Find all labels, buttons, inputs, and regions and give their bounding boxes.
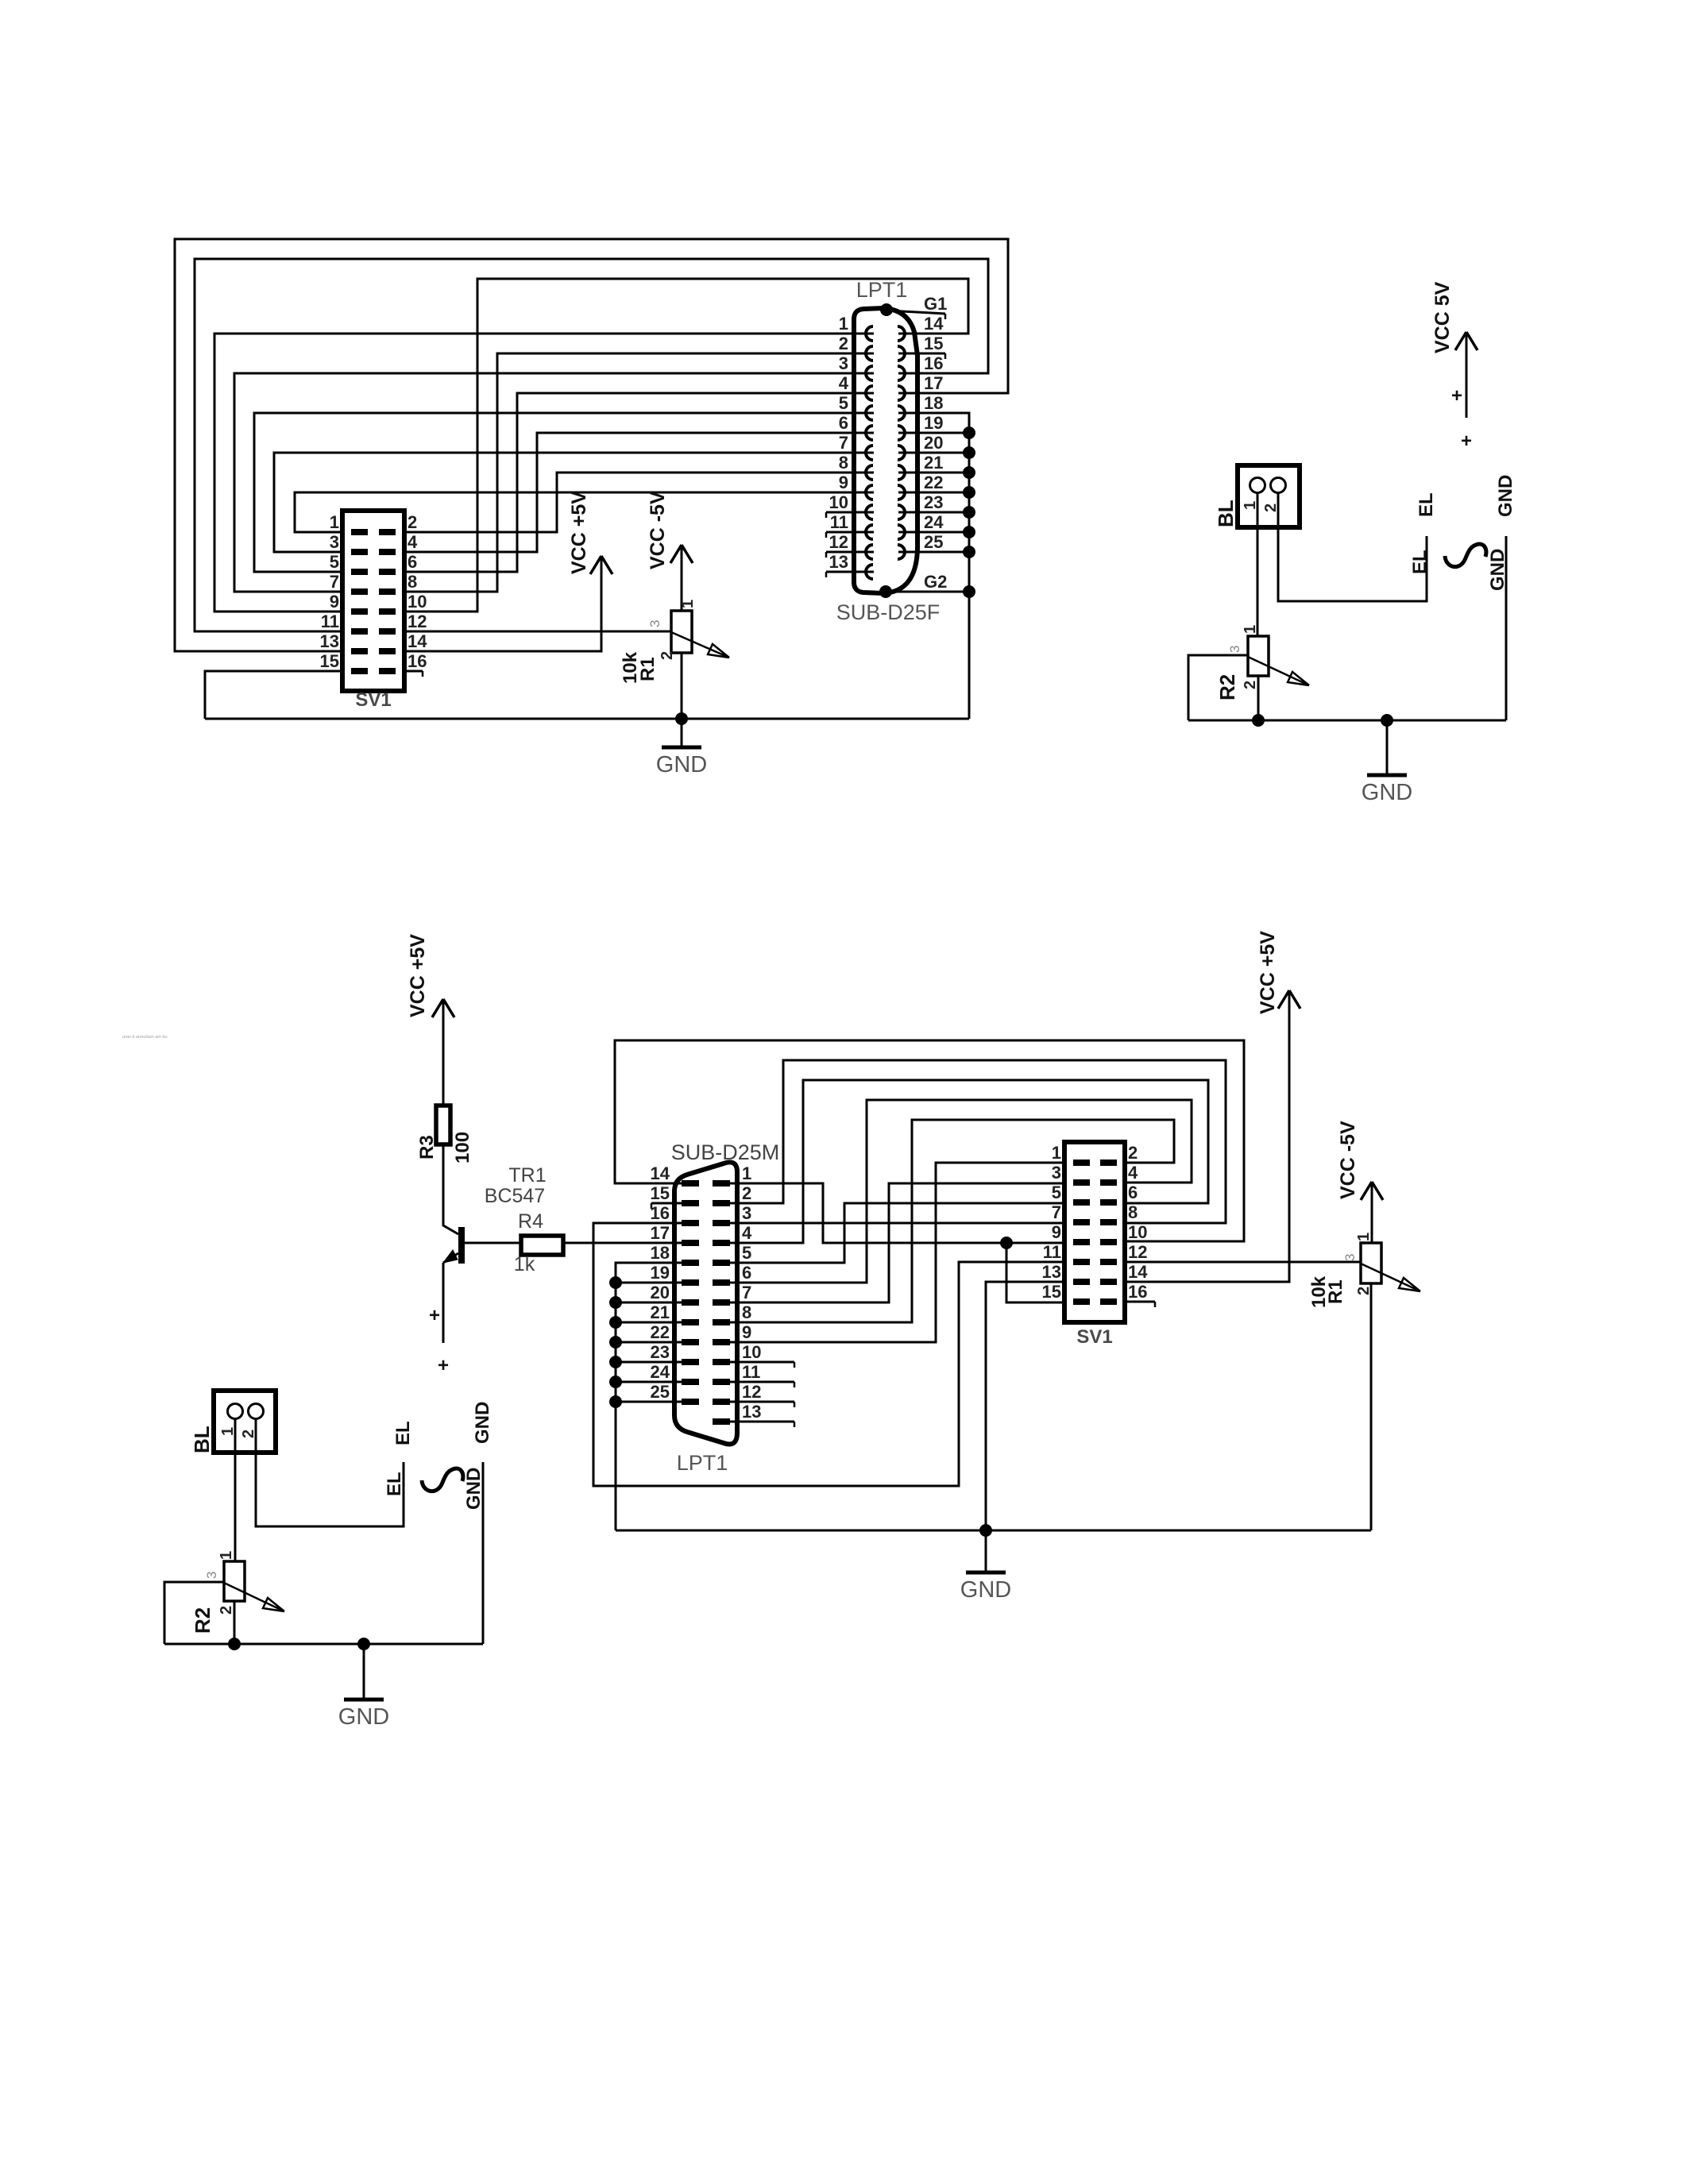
power VCC +5V arrow (bottom right) [1278, 990, 1300, 1009]
header SV1 (bottom) pin pads [1073, 1160, 1090, 1166]
junction LPT1-25 (bottom) [609, 1395, 622, 1408]
wire BL-1 to R2-1 (top right) [1257, 492, 1259, 636]
svg-text:16: 16 [924, 353, 943, 373]
pin 13 stub (LPT1 top) [826, 571, 874, 573]
svg-text:EL: EL [392, 1421, 414, 1445]
wire LPT1-22 to GND bus [898, 492, 969, 494]
wire LPT1-4 to SV1-6 (run3) [727, 1080, 1208, 1243]
svg-text:12: 12 [742, 1382, 761, 1402]
connector LPT1 pin arcs [866, 326, 873, 341]
connector BL (top right) body [1238, 465, 1300, 527]
svg-text:3: 3 [330, 532, 339, 552]
svg-text:VCC -5V: VCC -5V [647, 491, 669, 569]
wire LPT1-21 to GND bus [898, 472, 969, 474]
svg-text:15: 15 [651, 1183, 670, 1203]
svg-text:SUB-D25F: SUB-D25F [836, 600, 941, 624]
svg-text:EL: EL [1409, 550, 1431, 574]
junction LPT1-21 (bottom) [609, 1316, 622, 1329]
svg-text:11: 11 [830, 512, 848, 532]
svg-text:3: 3 [839, 353, 848, 373]
junction R2-2 node (bottom left) [228, 1638, 241, 1650]
wire SV1-14 to VCC+5V [404, 556, 601, 651]
svg-text:+: + [1461, 430, 1472, 452]
wire BL-2 to EL (top right) [1278, 492, 1427, 601]
wire GND bottom run (bottom schematic) [616, 1530, 1371, 1532]
wire LPT1-19 to GND bus [898, 432, 969, 434]
svg-text:VCC 5V: VCC 5V [1431, 281, 1454, 353]
wire TR1 emitter down [442, 1263, 445, 1343]
svg-text:11: 11 [742, 1362, 760, 1382]
junction LPT1-24 [963, 526, 975, 538]
svg-text:17: 17 [651, 1223, 670, 1243]
svg-text:2: 2 [408, 512, 417, 532]
svg-text:2: 2 [1128, 1143, 1138, 1163]
svg-text:1k: 1k [514, 1253, 535, 1275]
net GND stub (top right) [1505, 536, 1508, 720]
svg-text:14: 14 [924, 314, 944, 334]
wire LPT1-20 to GND bus [898, 452, 969, 454]
svg-text:24: 24 [924, 512, 944, 532]
wire SV1-12 to R1-3 (bottom) [1125, 1261, 1361, 1264]
svg-text:22: 22 [924, 473, 943, 492]
wire SV1-6 to LPT1-4 [404, 393, 874, 572]
wire GND bottom run (bottom left) [164, 1643, 483, 1646]
svg-text:GND: GND [960, 1577, 1011, 1603]
connector LPT1 SUB-D25F outline [854, 308, 917, 593]
svg-text:12: 12 [1128, 1242, 1147, 1262]
svg-text:uran b annulaun am bu: uran b annulaun am bu [122, 1035, 168, 1040]
junction LPT1-25 [963, 546, 975, 558]
connector LPT1 SUB-D25M outline [674, 1162, 737, 1444]
svg-text:2: 2 [218, 1606, 235, 1615]
connector BL (bottom left) pin 1 circle [228, 1404, 243, 1419]
svg-text:10: 10 [408, 592, 427, 612]
wire LPT1-23 to GND bus [898, 511, 969, 514]
junction LPT1-23 (bottom) [609, 1356, 622, 1368]
svg-text:VCC +5V: VCC +5V [568, 491, 590, 574]
pin 16 stub (SV1 top) [404, 670, 423, 673]
potentiometer R2 (top right) body [1248, 636, 1269, 676]
svg-text:7: 7 [742, 1283, 751, 1302]
power VCC +5V arrow (bottom left) [442, 999, 445, 1106]
svg-text:4: 4 [839, 373, 849, 393]
svg-text:18: 18 [924, 393, 943, 413]
wire LPT1-18 to GND bus (bottom) [616, 1263, 685, 1530]
potentiometer R1 (top) body [671, 611, 692, 653]
svg-text:4: 4 [1128, 1163, 1138, 1183]
junction GND node (bottom) [979, 1524, 992, 1537]
svg-text:EL: EL [1416, 492, 1437, 517]
junction LPT1-23 [963, 506, 975, 519]
svg-text:20: 20 [651, 1283, 670, 1302]
svg-text:14: 14 [408, 631, 427, 651]
svg-text:11: 11 [321, 612, 339, 631]
svg-text:14: 14 [651, 1163, 670, 1183]
transistor TR1 emitter [443, 1253, 458, 1263]
svg-text:13: 13 [1042, 1262, 1061, 1282]
svg-text:8: 8 [1128, 1202, 1138, 1222]
svg-text:GND: GND [1487, 549, 1508, 591]
junction LPT1-21 [963, 466, 975, 479]
svg-text:1: 1 [1355, 1233, 1373, 1241]
potentiometer R2 (bottom left) wiper arrow [224, 1583, 284, 1611]
wire LPT1-8 to SV1-2 (run5) [727, 1120, 1174, 1322]
svg-text:7: 7 [1052, 1202, 1061, 1222]
wire LPT1-16 to SV1-11 [593, 1223, 1064, 1486]
junction LPT1-19 (bottom) [609, 1276, 622, 1289]
connector BL (bottom left) pin 2 circle [249, 1404, 264, 1419]
squiggle (bottom left) [422, 1468, 463, 1491]
potentiometer R2 (top right) wiper arrow [1248, 657, 1309, 685]
power VCC -5V arrow (bottom right) [1371, 1182, 1373, 1243]
junction GND node [675, 712, 688, 725]
svg-text:100: 100 [452, 1132, 473, 1163]
svg-text:SUB-D25M: SUB-D25M [671, 1140, 780, 1164]
svg-text:+: + [438, 1355, 449, 1376]
wire R2-3 loop (top right) [1188, 655, 1248, 720]
wire LPT1-3 to SV1-7 [727, 1222, 1064, 1225]
svg-text:1: 1 [679, 600, 697, 608]
svg-text:BC547: BC547 [485, 1185, 545, 1207]
transistor TR1 base bar [458, 1227, 465, 1264]
svg-text:R2: R2 [191, 1607, 214, 1634]
svg-text:1: 1 [1242, 625, 1259, 634]
svg-text:R2: R2 [1215, 674, 1239, 700]
svg-text:13: 13 [320, 631, 339, 651]
junction LPT1-20 (bottom) [609, 1296, 622, 1309]
svg-text:15: 15 [1042, 1282, 1061, 1302]
svg-text:5: 5 [1052, 1183, 1061, 1202]
wire SV1-14 to VCC+5V (bottom) [1125, 990, 1289, 1282]
svg-text:15: 15 [320, 651, 339, 671]
junction GND node (top right) [1381, 714, 1393, 727]
wire LPT1-24 to GND bus [898, 531, 969, 534]
svg-text:19: 19 [651, 1263, 670, 1283]
header SV1 (top schematic) body [342, 511, 404, 691]
junction LPT1-24 (bottom) [609, 1376, 622, 1388]
ground GND (top right) [1386, 720, 1389, 775]
wire LPT1-21 to GND bus (bottom) [616, 1322, 685, 1324]
wire R2-2 to GND (top right) [1257, 676, 1260, 720]
connector BL (bottom left) body [214, 1391, 276, 1453]
svg-text:13: 13 [829, 552, 848, 572]
svg-text:1: 1 [839, 314, 848, 334]
resistor R3 body [436, 1106, 450, 1144]
node G2 junction dot on LPT1 shell [879, 585, 892, 598]
pin 16 stub (SV1 bottom) [1125, 1301, 1155, 1303]
svg-text:6: 6 [742, 1263, 751, 1283]
node G1 junction dot on LPT1 shell [880, 303, 893, 316]
wire SV1-1 to LPT1-9 [295, 492, 874, 532]
svg-text:8: 8 [839, 453, 848, 473]
wire branch to SV1-15 [1006, 1243, 1064, 1302]
svg-text:3: 3 [647, 620, 662, 627]
svg-text:14: 14 [1128, 1262, 1148, 1282]
svg-text:2: 2 [839, 334, 848, 353]
svg-text:6: 6 [839, 413, 848, 433]
svg-text:GND: GND [338, 1704, 389, 1730]
svg-text:20: 20 [924, 433, 943, 453]
wire BL-2 to EL (bottom left) [256, 1418, 404, 1526]
wire R2-2 to GND (bottom left) [234, 1601, 236, 1644]
svg-text:GND: GND [1362, 780, 1412, 805]
wire LPT1-2 to SV1-8 (run2) [727, 1060, 1226, 1223]
svg-text:8: 8 [742, 1302, 751, 1322]
connector BL (top right) pin 2 circle [1271, 478, 1286, 493]
svg-text:23: 23 [651, 1342, 670, 1362]
wire SV1-11 to LPT1-16 [195, 259, 988, 631]
svg-text:5: 5 [742, 1243, 751, 1263]
wire SV1-10 to LPT1-14 [404, 279, 968, 612]
svg-text:3: 3 [1052, 1163, 1061, 1183]
pin 11 stub (SUB-D25M) [727, 1381, 794, 1383]
pin 10 stub (SUB-D25M) [727, 1361, 794, 1364]
svg-text:R4: R4 [518, 1210, 543, 1233]
wire R1-2 to GND (top) [681, 653, 683, 719]
svg-text:R3: R3 [416, 1135, 438, 1160]
svg-text:EL: EL [384, 1472, 405, 1496]
wire SV1-2 to LPT1-8 [404, 473, 874, 532]
svg-text:1: 1 [1052, 1143, 1061, 1163]
pin 15 stub (SUB-D25M) [651, 1202, 685, 1205]
svg-text:6: 6 [408, 552, 417, 572]
wire LPT1-19 to GND bus (bottom) [616, 1282, 685, 1284]
junction G2 [963, 585, 975, 598]
wire SV1-12 to R1-3 [404, 631, 671, 633]
header SV1 (top) pin pads [351, 529, 368, 535]
wire LPT1-20 to GND bus (bottom) [616, 1302, 685, 1304]
svg-text:16: 16 [1128, 1282, 1147, 1302]
pin 15 stub (LPT1 top) [898, 353, 945, 355]
potentiometer R1 (bottom) wiper arrow [1361, 1264, 1420, 1291]
svg-text:7: 7 [330, 572, 339, 592]
svg-text:24: 24 [651, 1362, 670, 1382]
svg-text:2: 2 [1242, 681, 1259, 689]
svg-text:LPT1: LPT1 [856, 278, 908, 302]
svg-text:LPT1: LPT1 [677, 1451, 728, 1475]
svg-text:1: 1 [742, 1163, 751, 1183]
svg-text:9: 9 [839, 473, 848, 492]
junction LPT1-22 (bottom) [609, 1336, 622, 1349]
svg-text:2: 2 [742, 1183, 751, 1203]
svg-text:1: 1 [330, 512, 339, 532]
svg-text:11: 11 [1043, 1242, 1061, 1262]
connector SUB-D25M pin bars [682, 1180, 699, 1187]
svg-text:8: 8 [408, 572, 417, 592]
wire R3 to TR1 collector [443, 1144, 458, 1234]
svg-text:19: 19 [924, 413, 943, 433]
wire SV1-15 to GND bus [205, 671, 342, 719]
svg-text:21: 21 [924, 453, 943, 473]
wire TR1 base to R4 [465, 1242, 521, 1244]
svg-text:5: 5 [839, 393, 848, 413]
wire SV1-4 to LPT1-6 [404, 433, 874, 552]
svg-text:16: 16 [408, 651, 427, 671]
pin 11 stub (LPT1 top) [826, 531, 874, 534]
wire GND bottom run (top schematic) [205, 718, 969, 720]
wire SV1-13 to GND (bottom) [986, 1282, 1064, 1530]
svg-text:TR1: TR1 [508, 1164, 546, 1187]
junction LPT1-20 [963, 446, 975, 459]
ground GND (top schematic) [681, 719, 683, 747]
svg-text:15: 15 [924, 334, 943, 353]
wire R2-3 loop (bottom left) [164, 1582, 224, 1644]
wire LPT1-6 to SV1-4 (run4) [727, 1100, 1192, 1283]
svg-text:18: 18 [651, 1243, 670, 1263]
potentiometer R1 (top) wiper arrow [671, 632, 729, 658]
junction LPT1-22 [963, 486, 975, 499]
wire LPT1-23 to GND bus (bottom) [616, 1361, 685, 1364]
wire LPT1-1 to SV1-9 [727, 1183, 1064, 1243]
wire LPT1-14 to SV1-10 (run1) [615, 1040, 1244, 1241]
header SV1 (bottom) body [1064, 1142, 1125, 1322]
power VCC -5V arrow (top) [681, 545, 683, 611]
svg-text:G2: G2 [924, 572, 947, 592]
wire LPT1-18 to GND bus [898, 413, 969, 719]
pin 10 stub (LPT1 top) [826, 511, 874, 514]
svg-text:10: 10 [742, 1342, 761, 1362]
wire LPT1-7 to SV1-3 [727, 1183, 1064, 1302]
svg-text:22: 22 [651, 1322, 670, 1342]
svg-text:3: 3 [1227, 646, 1242, 653]
svg-text:VCC +5V: VCC +5V [1257, 931, 1279, 1014]
svg-text:GND: GND [463, 1468, 485, 1510]
svg-text:25: 25 [924, 532, 943, 552]
svg-text:SV1: SV1 [355, 689, 391, 711]
wire SV1-9 to LPT1-1 [214, 334, 874, 612]
svg-text:3: 3 [204, 1572, 219, 1579]
pin 12 stub (SUB-D25M) [727, 1401, 794, 1403]
wire LPT1-22 to GND bus (bottom) [616, 1341, 685, 1344]
wire LPT1-5 to SV1-5 [727, 1203, 1064, 1263]
svg-text:BL: BL [190, 1426, 214, 1453]
wire LPT1-25 to GND bus [898, 551, 969, 554]
wire SV1-3 to LPT1-7 [274, 453, 874, 552]
svg-text:12: 12 [408, 612, 427, 631]
wire GND bottom run (top right) [1188, 720, 1506, 722]
svg-text:SV1: SV1 [1076, 1326, 1112, 1348]
svg-text:12: 12 [829, 532, 848, 552]
pin G1 stub [888, 311, 945, 314]
net GND stub (bottom left) [482, 1462, 485, 1644]
wire R4 to LPT1-17 (bottom) [563, 1242, 685, 1244]
wire SV1-8 to LPT1-2 [404, 353, 874, 592]
svg-text:4: 4 [742, 1223, 752, 1243]
potentiometer R1 (bottom) body [1361, 1243, 1381, 1283]
svg-text:7: 7 [839, 433, 848, 453]
junction branch node [1000, 1237, 1013, 1249]
svg-text:+: + [429, 1305, 440, 1326]
junction R2-2 node (top right) [1252, 714, 1265, 727]
junction LPT1-19 [963, 426, 975, 439]
svg-text:BL: BL [1214, 500, 1238, 527]
wire LPT1-25 to GND bus (bottom) [616, 1401, 685, 1403]
svg-text:VCC +5V: VCC +5V [407, 934, 429, 1017]
svg-text:6: 6 [1128, 1183, 1138, 1202]
svg-text:17: 17 [924, 373, 943, 393]
svg-text:1: 1 [218, 1551, 235, 1560]
wire SV1-13 to LPT1-17 [175, 239, 1008, 651]
pin 12 stub (LPT1 top) [826, 551, 874, 554]
wire LPT1-24 to GND bus (bottom) [616, 1381, 685, 1383]
svg-text:GND: GND [472, 1402, 493, 1444]
wire SV1-5 to LPT1-5 [254, 413, 874, 572]
svg-text:13: 13 [742, 1402, 761, 1422]
wire LPT1-G2 to GND bus [886, 591, 969, 593]
svg-text:R1: R1 [1325, 1279, 1346, 1304]
connector BL (top right) pin 1 circle [1250, 478, 1265, 493]
ground GND (bottom schematic) [985, 1530, 987, 1572]
power VCC +5V arrow (top) [590, 556, 612, 574]
wire SV1-7 to LPT1-3 [234, 373, 874, 592]
wire R1-2 to GND run (bottom) [1370, 1283, 1373, 1530]
svg-text:3: 3 [1342, 1254, 1358, 1261]
wire LPT1-9 to SV1-1 [727, 1163, 1064, 1342]
squiggle (top right) [1445, 544, 1486, 567]
svg-text:R1: R1 [637, 657, 659, 681]
svg-text:+: + [1451, 385, 1462, 407]
svg-text:23: 23 [924, 492, 943, 512]
svg-text:9: 9 [330, 592, 339, 612]
ground GND (bottom left) [363, 1644, 365, 1700]
svg-text:10: 10 [829, 492, 848, 512]
svg-text:GND: GND [1495, 475, 1516, 517]
svg-text:9: 9 [1052, 1222, 1061, 1242]
wire BL-1 to R2-1 (bottom left) [234, 1418, 237, 1561]
svg-text:4: 4 [408, 532, 418, 552]
svg-text:10: 10 [1128, 1222, 1147, 1242]
junction GND node (bottom left) [357, 1638, 370, 1650]
svg-text:VCC -5V: VCC -5V [1337, 1121, 1359, 1199]
resistor R4 body [521, 1236, 563, 1255]
svg-text:3: 3 [742, 1203, 751, 1223]
svg-text:9: 9 [742, 1322, 751, 1342]
svg-text:GND: GND [656, 752, 707, 778]
svg-text:21: 21 [651, 1302, 670, 1322]
svg-text:5: 5 [330, 552, 339, 572]
pin 13 stub (SUB-D25M) [727, 1421, 794, 1423]
power VCC 5V arrow (top right) [1466, 332, 1468, 418]
svg-text:G1: G1 [924, 294, 947, 314]
svg-text:2: 2 [659, 651, 676, 660]
svg-text:25: 25 [651, 1382, 670, 1402]
potentiometer R2 (bottom left) body [224, 1561, 245, 1601]
svg-text:16: 16 [651, 1203, 670, 1223]
